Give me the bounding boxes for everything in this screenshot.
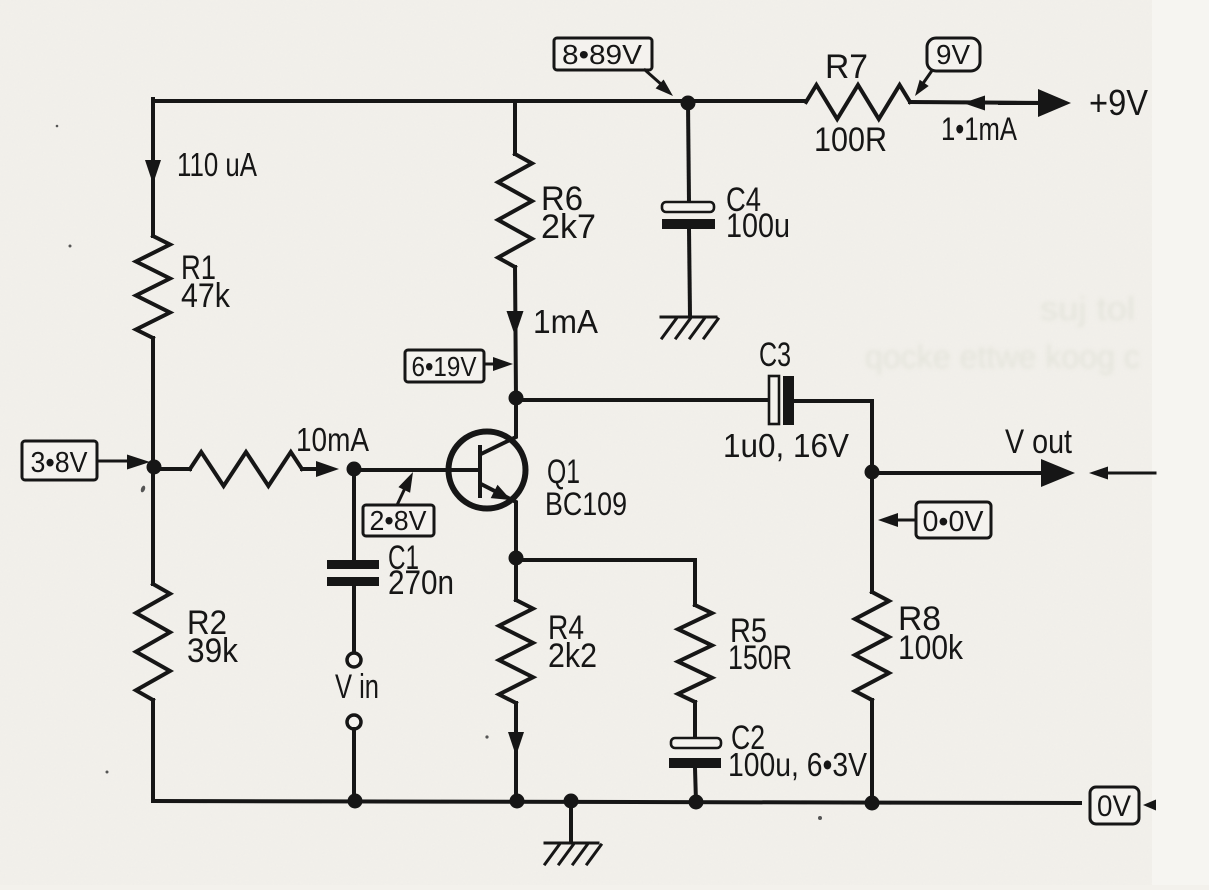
label box 0.0V [916, 502, 991, 538]
arrow from 3.8V box to node [97, 460, 127, 463]
paper texture noise [0, 0, 1, 1]
node: R8 on rail [865, 796, 880, 811]
resistor R6 [498, 154, 532, 267]
node: R4 on rail [510, 794, 525, 809]
node: rail / C4 node [681, 96, 696, 111]
svg-text:8•89V: 8•89V [562, 39, 642, 70]
node: emitter node [509, 551, 524, 566]
label box 6.19V [405, 350, 484, 382]
arrow from 0.0V box to output wire [898, 519, 916, 522]
wire: rail to R6 [513, 101, 517, 154]
svg-text:suj tol: suj tol [1040, 290, 1135, 327]
svg-text:+9V: +9V [1089, 82, 1148, 123]
svg-text:0V: 0V [1097, 790, 1131, 823]
node A: divider/base-feed node [147, 460, 162, 475]
wire: output node to R8 [870, 472, 874, 592]
svg-text:39k: 39k [187, 632, 239, 670]
svg-text:R7: R7 [825, 48, 868, 86]
wire: R8 to rail [870, 700, 874, 803]
current arrow 1mA [507, 311, 524, 336]
node: Vin return on rail [348, 794, 363, 809]
transistor Q1 circle [449, 432, 526, 509]
capacitor C2 [671, 738, 721, 748]
wire: C1 to input terminal [352, 586, 356, 652]
svg-text:qocke ettwe koog c: qocke ettwe koog c [865, 338, 1140, 375]
page right edge band [1152, 0, 1209, 885]
capacitor C1 [327, 560, 379, 569]
wire: C3 to output node [794, 401, 872, 472]
resistor R7 [806, 85, 910, 119]
wire: emitter node to R4 [514, 558, 518, 600]
wire: bottom 0V rail [153, 801, 1080, 803]
+9V terminal arrow [1000, 101, 1042, 105]
svg-text:3•8V: 3•8V [31, 447, 89, 479]
svg-text:100k: 100k [898, 629, 964, 667]
arrow from 6.19V box to collector wire [484, 363, 494, 366]
svg-text:1u0, 16V: 1u0, 16V [723, 427, 849, 464]
svg-text:1mA: 1mA [533, 303, 598, 340]
label box 3.8V [22, 441, 97, 480]
wire: R6 to collector node [515, 267, 516, 398]
wire: left vertical (bottom section) [151, 700, 155, 801]
svg-text:2k7: 2k7 [541, 208, 596, 246]
bleed-through artifact text [865, 290, 1140, 375]
resistor R2 [136, 584, 170, 700]
wire: C4 to ground [689, 229, 690, 316]
pointer from 9V box to rail [924, 72, 931, 82]
node: output node [865, 465, 880, 480]
svg-text:C3: C3 [759, 336, 791, 374]
svg-text:47k: 47k [181, 277, 231, 315]
wire: left vertical (mid section) [151, 338, 155, 584]
wire: base node down to C1 [352, 469, 356, 560]
ground (below C4) [661, 317, 718, 338]
wire: R4 to rail with current arrow [514, 703, 518, 801]
node: collector node [509, 391, 524, 406]
node: C2 on rail [689, 795, 704, 810]
wire: top +9V rail [153, 99, 806, 103]
resistor R4 [499, 600, 533, 703]
wire: left vertical (top section) [151, 99, 155, 236]
node B: base node [347, 462, 362, 477]
capacitor C3 [769, 376, 779, 424]
transistor Q1 collector lead [481, 398, 516, 454]
current arrow 1.1mA (pointing left along rail) [963, 96, 985, 111]
svg-text:2k2: 2k2 [548, 637, 597, 675]
resistor R8 [855, 592, 889, 700]
resistor (source, unlabelled) [190, 452, 302, 486]
incoming arrow from right edge (Vout) [1106, 472, 1155, 475]
svg-text:100R: 100R [814, 121, 887, 159]
wire: collector node to C3 [516, 398, 769, 402]
label box 2.8V [363, 505, 434, 536]
wire: rail to ground symbol [569, 801, 573, 842]
svg-text:0•0V: 0•0V [923, 506, 985, 538]
wire: base node to transistor base [354, 468, 477, 472]
incoming arrow at 0V box [1143, 800, 1156, 811]
svg-text:V out: V out [1005, 423, 1072, 461]
svg-text:270n: 270n [388, 564, 454, 602]
label box 0V [1090, 787, 1139, 824]
svg-text:150R: 150R [728, 639, 792, 677]
svg-text:100u, 6•3V: 100u, 6•3V [728, 746, 867, 783]
ground (below 0V rail) [545, 843, 601, 864]
dust specks [56, 125, 822, 820]
node: ground stub on rail [564, 794, 579, 809]
svg-text:V in: V in [335, 668, 379, 706]
wire + current arrow 10mA into base node [302, 467, 318, 471]
svg-text:BC109: BC109 [545, 486, 627, 522]
svg-text:6•19V: 6•19V [412, 351, 477, 382]
resistor R1 [136, 236, 170, 338]
svg-text:9V: 9V [936, 39, 970, 70]
wire: rail node to C4 [688, 103, 689, 202]
capacitor C4 [662, 202, 714, 212]
V out arrow [872, 471, 1044, 475]
svg-text:10mA: 10mA [296, 421, 369, 458]
current arrow 110uA [145, 160, 161, 184]
label box 8.89V [554, 38, 652, 70]
wire: C2 to rail [695, 768, 696, 802]
wire: R5 to C2 [693, 702, 697, 738]
svg-text:2•8V: 2•8V [370, 505, 427, 536]
arrow from 2.8V box to base wire [398, 486, 406, 503]
resistor R5 [678, 605, 712, 702]
wire: terminal down to 0V rail [352, 729, 356, 801]
wire: emitter node to R5 [516, 560, 695, 605]
input return terminal (open circle) [347, 715, 361, 729]
transistor Q1 emitter lead with arrow [481, 484, 516, 558]
wire: node to source resistor [154, 467, 190, 471]
transistor Q1 base bar [478, 447, 482, 496]
pointer from 8.89V box to rail [645, 70, 662, 85]
label box 9V [927, 38, 980, 71]
svg-text:110 uA: 110 uA [177, 146, 257, 183]
input terminal (open circle) [347, 653, 361, 667]
svg-text:100u: 100u [726, 207, 790, 245]
svg-text:1•1mA: 1•1mA [941, 111, 1018, 147]
